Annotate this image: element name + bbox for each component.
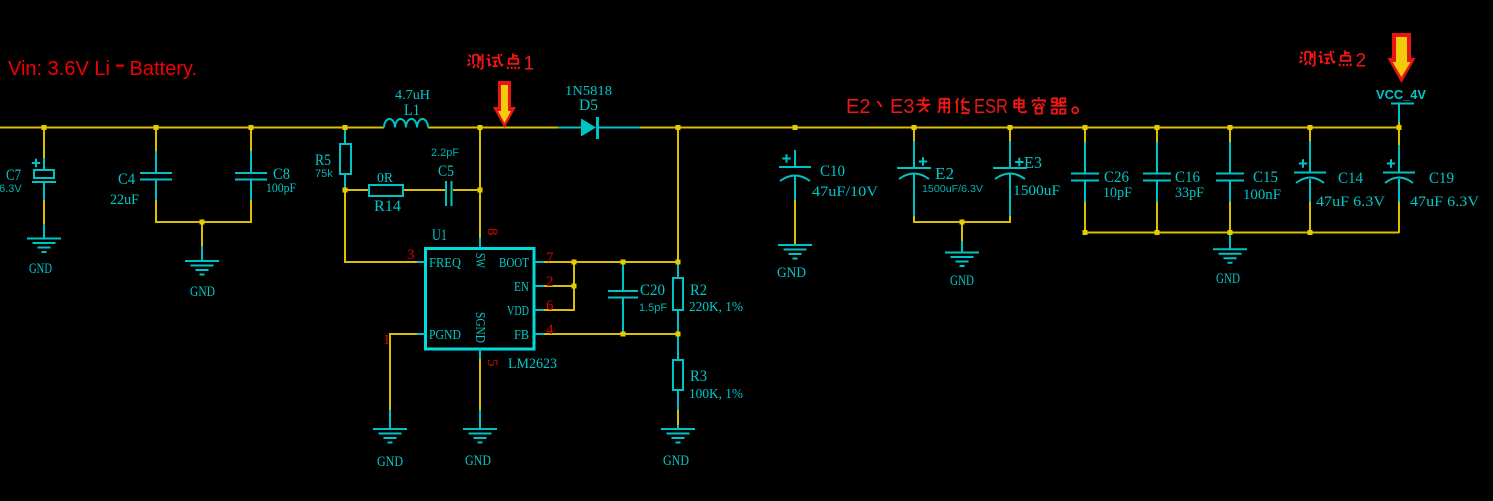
junction BOOT R2: [676, 260, 681, 265]
junction C10 at bus: [793, 125, 798, 130]
wire C10 lower stem: [794, 200, 796, 245]
node VCC_4V stub: [1391, 104, 1414, 123]
capacitor C26 symbol: [1071, 142, 1099, 202]
resistor R2 body: [673, 262, 683, 334]
svg-text:3: 3: [407, 247, 415, 263]
svg-text:SGND: SGND: [472, 312, 487, 343]
svg-text:LM2623: LM2623: [508, 356, 557, 372]
wire SW node vertical: [479, 128, 481, 238]
svg-text:C16: C16: [1175, 169, 1200, 186]
wire C4C8 gnd stem: [201, 222, 203, 246]
svg-text:1.5pF: 1.5pF: [639, 302, 667, 314]
svg-text:100nF: 100nF: [1243, 187, 1281, 203]
CYAN: [27, 104, 1415, 443]
wire EN: [544, 285, 575, 287]
svg-text:8: 8: [484, 228, 500, 236]
svg-text:C10: C10: [820, 163, 845, 180]
capacitor C4 symbol: [140, 151, 172, 200]
svg-text:FB: FB: [514, 328, 529, 343]
svg-text:EN: EN: [514, 280, 529, 295]
wire C15 stems: [1229, 128, 1231, 233]
wire R3 to ground: [677, 410, 679, 425]
svg-text:100K, 1%: 100K, 1%: [689, 387, 743, 402]
junction BOOT jog: [572, 260, 577, 265]
wire C8 upper stem: [250, 128, 252, 151]
junction C5 SW node: [478, 188, 483, 193]
svg-text:4.7uH: 4.7uH: [395, 88, 430, 103]
wire output ground bus: [1085, 232, 1399, 234]
svg-text:33pF: 33pF: [1175, 185, 1204, 201]
svg-text:R5: R5: [315, 152, 331, 169]
capacitor C16 symbol: [1143, 142, 1171, 202]
junction C7 at bus: [42, 125, 47, 130]
diode D5: [558, 117, 640, 139]
junction C4 C8 ground tee: [200, 220, 205, 225]
svg-text:47uF/6.3V: 47uF/6.3V: [0, 183, 22, 195]
junction C8 at bus: [249, 125, 254, 130]
junction R5 at bus: [343, 125, 348, 130]
svg-text:E3: E3: [890, 96, 914, 118]
junction C14 at bus: [1308, 125, 1313, 130]
ground under C4 C8: [185, 246, 219, 275]
svg-text:1: 1: [524, 54, 535, 75]
svg-text:C26: C26: [1104, 169, 1129, 186]
svg-text:E2: E2: [846, 96, 870, 118]
svg-text:C5: C5: [438, 163, 454, 180]
junction C16 at ground bus: [1155, 230, 1160, 235]
junction C15 at bus: [1228, 125, 1233, 130]
wire R14 to C5: [403, 189, 445, 191]
svg-text:U1: U1: [432, 227, 447, 244]
svg-text:R3: R3: [690, 368, 707, 385]
inductor L1: [384, 119, 428, 128]
junction EN jog: [572, 284, 577, 289]
capacitor C20 symbol: [608, 262, 638, 334]
svg-text:L1: L1: [404, 102, 420, 119]
svg-text:2.2pF: 2.2pF: [431, 147, 459, 159]
plus sign E2: [919, 157, 927, 165]
plus sign C10: [782, 154, 790, 162]
annotation test point 2 text: [1299, 50, 1366, 71]
svg-text:5: 5: [484, 359, 500, 367]
annotation Vin 3.6V Li Battery: [8, 58, 197, 80]
wire C7 stem: [43, 128, 45, 224]
annotation E2 E3 low ESR text: [846, 96, 1078, 118]
wire C16 stems: [1156, 128, 1158, 233]
wire C4-C8 ground bus: [155, 221, 252, 223]
wire C26 stems: [1084, 128, 1086, 233]
wire R14 left lead: [345, 189, 369, 191]
svg-text:22uF: 22uF: [110, 192, 139, 208]
annotation test point 1 text: [467, 53, 534, 74]
junction E3 at bus: [1008, 125, 1013, 130]
svg-text:1500uF: 1500uF: [1013, 183, 1060, 199]
ground under C10: [778, 245, 812, 259]
svg-text:C4: C4: [118, 171, 135, 188]
capacitor C7 polarized symbol: [32, 158, 56, 238]
junction FB R2 R3: [676, 332, 681, 337]
svg-text:C7: C7: [6, 167, 21, 184]
op-amp U1 LM2623 box: [426, 249, 535, 350]
svg-text:220K, 1%: 220K, 1%: [689, 300, 743, 315]
svg-text:47uF 6.3V: 47uF 6.3V: [1316, 194, 1385, 210]
wire E2-E3 ground bus: [913, 221, 1011, 223]
wire E3 stems: [1009, 128, 1011, 222]
wire C19 lower stem: [1398, 202, 1400, 233]
plus sign E3: [1015, 158, 1023, 166]
svg-text:GND: GND: [29, 261, 52, 277]
svg-text:75k: 75k: [315, 168, 333, 180]
svg-text:1500uF/6.3V: 1500uF/6.3V: [922, 184, 983, 195]
svg-text:GND: GND: [465, 453, 491, 469]
plus sign C7: [32, 159, 40, 167]
capacitor C19 polarized symbol: [1383, 145, 1415, 202]
capacitor C5 plates: [446, 181, 452, 206]
svg-text:R14: R14: [374, 198, 401, 215]
plus sign C14: [1299, 159, 1307, 167]
svg-text:GND: GND: [663, 453, 689, 469]
svg-text:1: 1: [383, 332, 391, 348]
svg-text:ESR: ESR: [974, 96, 1008, 118]
ground under R3: [661, 429, 695, 443]
ground under PGND: [373, 410, 407, 443]
svg-text:7: 7: [546, 250, 554, 266]
svg-text:C19: C19: [1429, 170, 1454, 187]
capacitor C8 symbol: [235, 151, 267, 200]
resistor R14 body: [369, 185, 403, 196]
annotation test point 2 arrow: [1388, 33, 1416, 83]
wire output node vertical to BOOT line: [677, 128, 679, 263]
plus sign C19: [1387, 159, 1395, 167]
svg-text:100pF: 100pF: [266, 180, 296, 195]
svg-text:10pF: 10pF: [1103, 185, 1132, 201]
svg-text:47uF/10V: 47uF/10V: [812, 184, 878, 200]
capacitor E2 polarized symbol: [897, 141, 931, 216]
svg-text:E2: E2: [935, 164, 954, 183]
wire VIN bus left segment: [0, 127, 384, 129]
svg-text:E3: E3: [1024, 153, 1042, 172]
svg-text:FREQ: FREQ: [429, 256, 461, 271]
wire C14 stems: [1309, 128, 1311, 233]
svg-text:GND: GND: [190, 284, 215, 300]
svg-text:2: 2: [546, 274, 554, 290]
svg-text:C20: C20: [640, 282, 665, 299]
junction E2 E3 ground tee: [960, 220, 965, 225]
wire VDD: [544, 309, 575, 311]
wire EN-VDD jog vertical: [573, 261, 575, 310]
junction C14 at ground bus: [1308, 230, 1313, 235]
capacitor C15 symbol: [1216, 142, 1244, 202]
ground under SGND: [463, 410, 497, 443]
junction C4 at bus: [154, 125, 159, 130]
wire C19 upper stem: [1398, 122, 1400, 145]
wire C8 lower stem: [250, 200, 252, 222]
svg-text:D5: D5: [579, 97, 598, 114]
U1 pin stubs: [417, 238, 544, 359]
junction C20 bottom FB: [621, 332, 626, 337]
wire E2 stems: [913, 128, 915, 222]
wire output bus D5 to VCC_4V: [640, 127, 1399, 129]
svg-text:BOOT: BOOT: [499, 256, 529, 271]
junction C16 at bus: [1155, 125, 1160, 130]
junction output node at bus: [676, 125, 681, 130]
junction R5 R14 node: [343, 188, 348, 193]
svg-text:6: 6: [546, 298, 554, 314]
svg-text:PGND: PGND: [429, 328, 461, 343]
svg-text:VDD: VDD: [507, 304, 529, 319]
svg-text:2: 2: [1356, 51, 1367, 72]
svg-text:0R: 0R: [377, 171, 394, 186]
wire BOOT: [544, 261, 679, 263]
junction E2 at bus: [912, 125, 917, 130]
junction C26 at bus: [1083, 125, 1088, 130]
svg-text:VCC_4V: VCC_4V: [1376, 87, 1426, 102]
svg-text:Battery.: Battery.: [130, 58, 197, 80]
junction C26 at ground bus: [1083, 230, 1088, 235]
wire R5 node to FREQ pin: [344, 190, 417, 263]
pin numbers: [383, 228, 554, 367]
wire C4 upper stem: [155, 128, 157, 151]
junction C15 ground tee: [1228, 230, 1233, 235]
junction SW node at bus: [478, 125, 483, 130]
svg-text:SW: SW: [472, 253, 487, 269]
svg-text:R2: R2: [690, 282, 707, 299]
svg-text:GND: GND: [950, 273, 974, 289]
svg-text:Vin: 3.6V Li: Vin: 3.6V Li: [8, 58, 110, 80]
ground under E2 E3: [945, 241, 979, 266]
wire C4 lower stem: [155, 200, 157, 222]
wire PGND pin to ground: [390, 334, 417, 410]
junction C19 VCC at bus: [1397, 125, 1402, 130]
capacitor C10 polarized symbol: [779, 150, 811, 200]
ground under output bus: [1213, 233, 1247, 263]
wire bus L1 to D5: [428, 127, 558, 129]
svg-text:47uF 6.3V: 47uF 6.3V: [1410, 194, 1479, 210]
resistor R3 body: [673, 334, 683, 429]
capacitor E3 polarized symbol: [993, 141, 1027, 216]
wire E2E3 gnd stem: [961, 222, 963, 241]
svg-text:GND: GND: [777, 265, 806, 281]
svg-text:C14: C14: [1338, 170, 1363, 187]
svg-text:4: 4: [546, 322, 554, 338]
capacitor C14 polarized symbol: [1294, 141, 1326, 202]
wire C5 to SW node: [453, 189, 480, 191]
wire FB: [544, 333, 679, 335]
annotation test point 1 arrow: [493, 81, 516, 128]
wire SGND lower: [479, 359, 481, 410]
resistor R5 body: [340, 128, 351, 190]
ground under C7: [27, 239, 61, 253]
svg-text:C15: C15: [1253, 169, 1278, 186]
junction C20 top: [621, 260, 626, 265]
svg-text:GND: GND: [377, 454, 403, 470]
svg-text:GND: GND: [1216, 271, 1240, 287]
